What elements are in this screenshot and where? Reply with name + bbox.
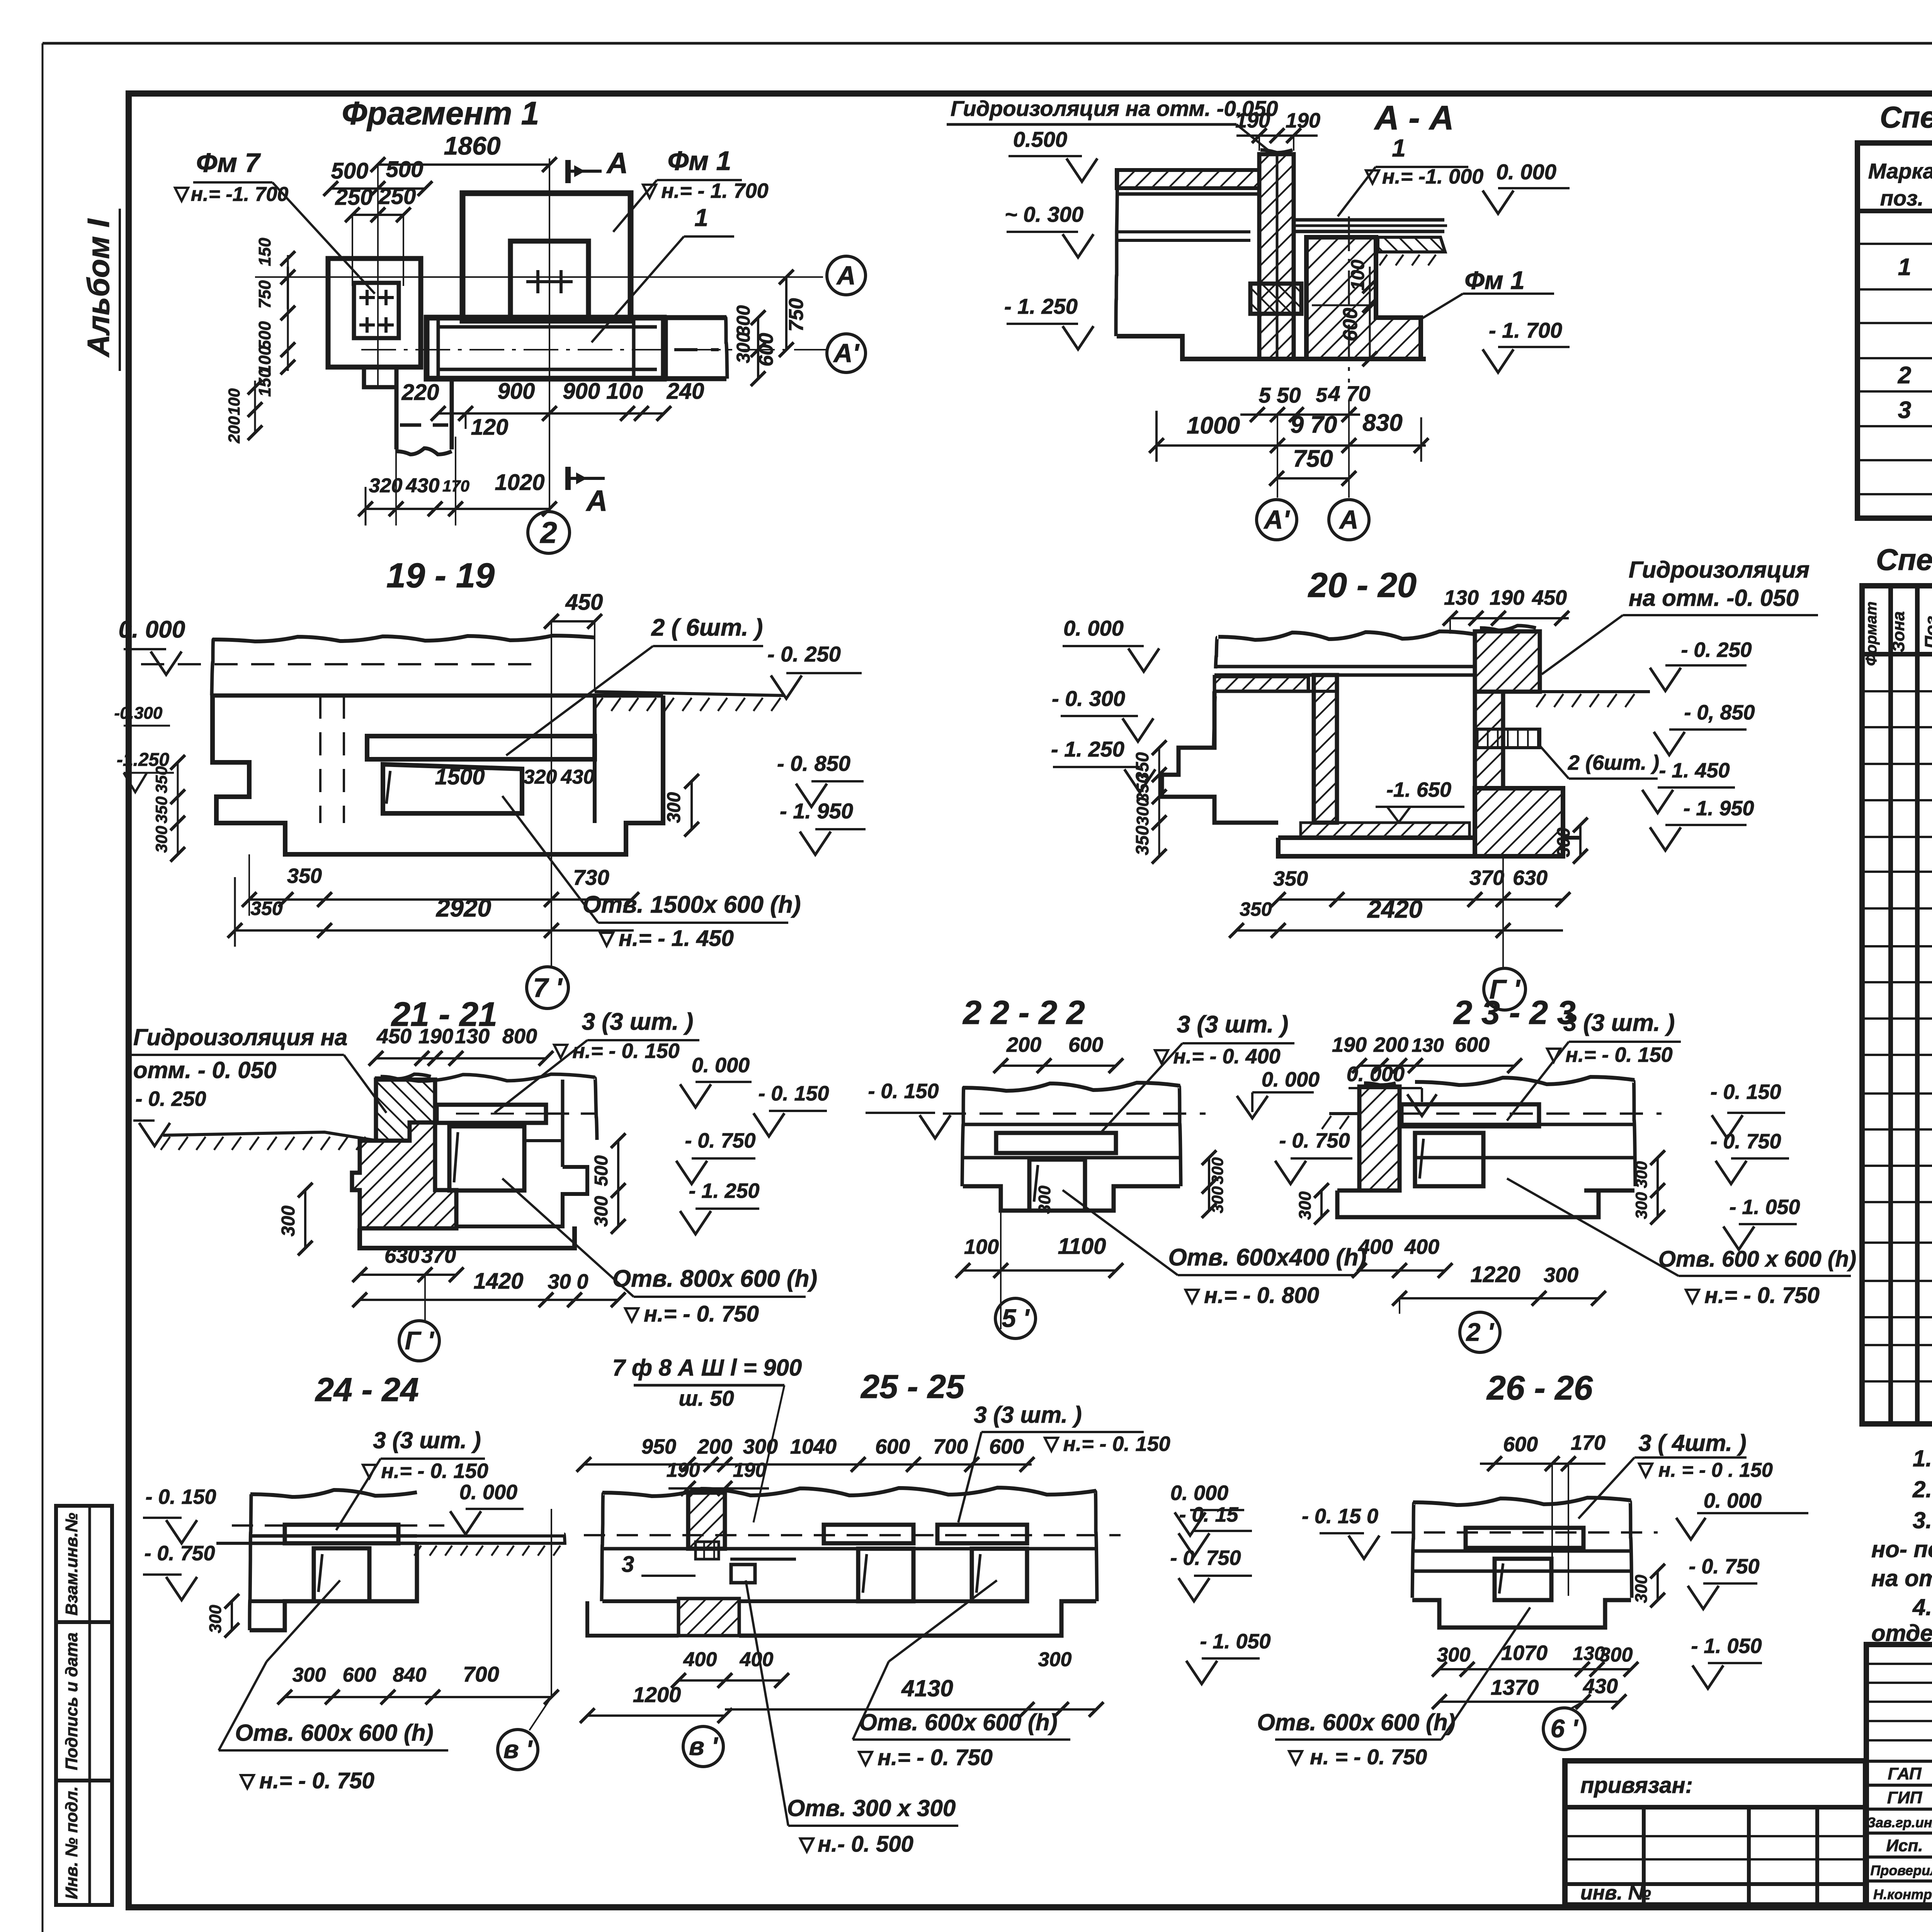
- 26-26 right rotated dim 300: [1656, 1571, 1659, 1600]
- svg-text:0. 000: 0. 000: [1704, 1489, 1762, 1512]
- svg-text:0. 000: 0. 000: [119, 616, 185, 643]
- svg-text:600: 600: [343, 1664, 376, 1686]
- svg-text:300: 300: [152, 826, 170, 853]
- svg-text:7 ': 7 ': [533, 973, 563, 1003]
- svg-text:1040: 1040: [790, 1435, 837, 1458]
- section mark A top: [565, 160, 571, 183]
- svg-text:320: 320: [369, 474, 403, 497]
- svg-text:- 0. 150: - 0. 150: [868, 1080, 939, 1103]
- svg-text:- 0. 250: - 0. 250: [767, 642, 841, 666]
- svg-text:220: 220: [401, 380, 439, 405]
- svg-text:- 0. 750: - 0. 750: [1689, 1555, 1759, 1578]
- 24-24 body: [250, 1490, 417, 1497]
- svg-text:Спецификация: Спецификация: [1876, 543, 1932, 577]
- svg-text:1: 1: [1392, 134, 1406, 162]
- svg-text:3 (3 шт. ): 3 (3 шт. ): [373, 1427, 481, 1453]
- svg-text:Гидроизоляция: Гидроизоляция: [1629, 557, 1810, 583]
- svg-text:170: 170: [1571, 1431, 1605, 1454]
- 21-21 concrete block: [352, 1122, 456, 1228]
- svg-text:350: 350: [152, 766, 170, 793]
- svg-text:4130: 4130: [901, 1675, 953, 1701]
- svg-text:600: 600: [989, 1435, 1024, 1458]
- svg-text:- 0. 750: - 0. 750: [1279, 1129, 1350, 1152]
- svg-text:190: 190: [733, 1459, 767, 1481]
- svg-text:ГИП: ГИП: [1887, 1788, 1923, 1807]
- svg-text:370: 370: [421, 1244, 456, 1267]
- 22-22 levels: [866, 1112, 935, 1114]
- svg-text:130: 130: [455, 1025, 490, 1048]
- svg-text:Инв. № подл.: Инв. № подл.: [62, 1786, 81, 1899]
- svg-text:190: 190: [1332, 1033, 1367, 1056]
- svg-text:500: 500: [591, 1155, 612, 1186]
- svg-text:300: 300: [1437, 1644, 1471, 1666]
- 23-23 left rotated dim 300: [1320, 1190, 1323, 1217]
- 20-20 right foundation step: [1475, 788, 1563, 856]
- section mark A bottom: [565, 467, 571, 490]
- svg-text:350: 350: [287, 864, 322, 888]
- 22-22 body: [963, 1083, 1180, 1091]
- svg-text:н.= - 0. 150: н.= - 0. 150: [1063, 1432, 1170, 1456]
- svg-text:2420: 2420: [1367, 895, 1422, 923]
- svg-text:- 1. 700: - 1. 700: [1489, 318, 1562, 342]
- svg-text:3 ( 4шт. ): 3 ( 4шт. ): [1638, 1430, 1746, 1456]
- svg-text:1860: 1860: [444, 131, 501, 160]
- 23-23 opening: [1415, 1133, 1483, 1186]
- svg-text:отм. - 0. 050: отм. - 0. 050: [133, 1057, 276, 1083]
- svg-text:ш. 50: ш. 50: [679, 1386, 734, 1410]
- svg-text:300: 300: [1035, 1185, 1054, 1214]
- svg-text:0. 000: 0. 000: [1262, 1068, 1320, 1091]
- svg-text:н. = - 0. 750: н. = - 0. 750: [1310, 1745, 1427, 1769]
- 24-24 left rotated dim 300: [231, 1601, 233, 1630]
- svg-text:300: 300: [1208, 1157, 1226, 1184]
- svg-text:0. 000: 0. 000: [459, 1481, 517, 1504]
- svg-text:2 2 - 2 2: 2 2 - 2 2: [962, 994, 1085, 1031]
- svg-text:2: 2: [539, 515, 557, 549]
- svg-text:н.= -1. 000: н.= -1. 000: [1382, 165, 1483, 188]
- 25-25 openings: [858, 1549, 913, 1601]
- 25-25 bottom outline: [602, 1599, 679, 1603]
- svg-text:- 0. 750: - 0. 750: [144, 1542, 215, 1565]
- svg-text:- 1. 250: - 1. 250: [689, 1179, 759, 1202]
- svg-text:9 70: 9 70: [1291, 412, 1337, 438]
- svg-text:400: 400: [740, 1648, 774, 1671]
- svg-text:900: 900: [498, 379, 535, 404]
- 19-19 opening (Отв. 1500x600): [367, 736, 595, 759]
- svg-text:100: 100: [225, 388, 243, 415]
- svg-text:~ 0. 300: ~ 0. 300: [1005, 202, 1083, 226]
- 20-20 levels left: [1063, 645, 1144, 647]
- 20-20 left steps: [1162, 691, 1278, 823]
- svg-text:350: 350: [152, 796, 170, 823]
- 20-20 right rotated dim 300: [1579, 825, 1582, 856]
- svg-text:- 0. 15: - 0. 15: [1179, 1503, 1238, 1526]
- svg-text:Формат: Формат: [1863, 602, 1880, 666]
- svg-text:350: 350: [250, 898, 283, 919]
- svg-text:30 0: 30 0: [548, 1270, 588, 1293]
- svg-text:730: 730: [573, 865, 609, 889]
- 23-23 body: [1415, 1077, 1634, 1085]
- svg-text:А: А: [836, 261, 855, 290]
- 24-24 opening: [314, 1548, 369, 1601]
- 26-26 levels: [1320, 1532, 1364, 1534]
- 20-20 wall top right hatched: [1475, 631, 1540, 692]
- pad Фм1 (big square): [463, 193, 631, 321]
- svg-text:450: 450: [376, 1025, 412, 1048]
- svg-text:130: 130: [1444, 586, 1479, 609]
- svg-text:Фм 1: Фм 1: [668, 146, 731, 176]
- svg-text:Подпись и дата: Подпись и дата: [62, 1633, 81, 1770]
- svg-text:950: 950: [641, 1435, 676, 1458]
- 25-25 right levels: [1190, 1509, 1244, 1511]
- svg-text:но- песчаного раствора с: но- песчаного раствора состава 1 : 2 тол…: [1871, 1536, 1932, 1562]
- svg-text:А: А: [606, 147, 628, 180]
- svg-text:200: 200: [225, 416, 243, 444]
- svg-text:24 - 24: 24 - 24: [315, 1371, 419, 1408]
- svg-text:-0.300: -0.300: [114, 704, 163, 723]
- svg-text:Отв. 1500х 600 (h): Отв. 1500х 600 (h): [583, 891, 801, 918]
- 24-24 bottom outline: [250, 1543, 417, 1630]
- svg-text:300: 300: [733, 332, 754, 363]
- 26-26 body: [1413, 1498, 1631, 1505]
- svg-text:- 0. 150: - 0. 150: [1710, 1080, 1781, 1104]
- svg-text:А': А': [833, 338, 860, 368]
- svg-text:- 1. 050: - 1. 050: [1729, 1196, 1800, 1219]
- 24-24 right arm: [417, 1534, 564, 1537]
- svg-text:700: 700: [933, 1435, 968, 1458]
- 23-23 axis circle 2: [1399, 1298, 1400, 1314]
- A-A base: [1117, 336, 1426, 359]
- title block: [1866, 1645, 1932, 1905]
- svg-text:1: 1: [694, 204, 708, 231]
- svg-text:1020: 1020: [495, 470, 544, 495]
- 26-26 bottom outline: [1412, 1600, 1631, 1628]
- A-A right floor: [1294, 218, 1444, 222]
- 25-25 body: [602, 1488, 1096, 1496]
- svg-text:600: 600: [1068, 1033, 1103, 1056]
- svg-text:5 50: 5 50: [1259, 383, 1301, 407]
- svg-text:- 0. 750: - 0. 750: [685, 1129, 755, 1152]
- svg-text:- 1. 050: - 1. 050: [1691, 1634, 1762, 1658]
- svg-text:Исп.: Исп.: [1886, 1836, 1923, 1855]
- svg-text:300: 300: [1632, 1161, 1650, 1188]
- svg-text:Фм 1: Фм 1: [1464, 266, 1524, 294]
- svg-text:Отв. 300 х 300: Отв. 300 х 300: [787, 1795, 956, 1821]
- A-A axis circles: [1277, 415, 1278, 498]
- svg-text:300: 300: [293, 1664, 326, 1686]
- svg-text:240: 240: [667, 379, 704, 404]
- svg-text:н.= -1. 700: н.= -1. 700: [191, 183, 289, 206]
- svg-text:Проверил: Проверил: [1870, 1862, 1932, 1878]
- svg-text:Отв. 600х 600 (h): Отв. 600х 600 (h): [859, 1709, 1057, 1735]
- svg-text:1000: 1000: [1187, 412, 1240, 439]
- svg-text:430: 430: [406, 474, 440, 497]
- 24-24 axis circle в: [498, 1730, 538, 1770]
- foundation beam (plan): [427, 318, 664, 379]
- 20-20 bolts 2(6шт): [1477, 729, 1540, 748]
- svg-text:инв. №: инв. №: [1580, 1882, 1651, 1904]
- svg-text:400: 400: [1404, 1235, 1439, 1259]
- 23-23 wall: [1359, 1087, 1400, 1190]
- svg-text:н.= - 0. 750: н.= - 0. 750: [878, 1745, 993, 1770]
- svg-text:2920: 2920: [436, 894, 491, 922]
- 22-22 beam: [996, 1133, 1116, 1153]
- svg-text:на отм. - 0. 050: на отм. - 0. 050: [1871, 1565, 1932, 1591]
- svg-text:1500: 1500: [435, 764, 485, 789]
- 21-21 wall hatched: [376, 1080, 435, 1141]
- beam right segment: [663, 318, 668, 379]
- fragment 1 axes: [255, 276, 823, 278]
- svg-text:200: 200: [1006, 1033, 1041, 1056]
- svg-text:120: 120: [471, 415, 509, 440]
- svg-text:0. 000: 0. 000: [1170, 1481, 1228, 1505]
- svg-text:300: 300: [278, 1206, 299, 1236]
- svg-text:350: 350: [1273, 867, 1308, 890]
- svg-text:- 1. 050: - 1. 050: [1200, 1630, 1270, 1653]
- svg-text:- 1. 950: - 1. 950: [1683, 797, 1754, 820]
- svg-text:- 0. 750: - 0. 750: [1710, 1130, 1781, 1153]
- 21-21 beam: [437, 1105, 546, 1123]
- svg-text:830: 830: [1362, 410, 1402, 436]
- svg-text:- 0, 850: - 0, 850: [1684, 701, 1755, 724]
- 19-19 left rotated dims: [177, 762, 179, 854]
- svg-text:600: 600: [1503, 1433, 1538, 1456]
- svg-text:3: 3: [622, 1552, 634, 1577]
- svg-text:3. Горизонтальная гидроизоля: 3. Горизонтальная гидроизоляция выполняе…: [1913, 1507, 1932, 1533]
- svg-text:5 ': 5 ': [1002, 1304, 1030, 1332]
- svg-text:190: 190: [667, 1459, 700, 1481]
- svg-text:2 ( 6шт. ): 2 ( 6шт. ): [651, 614, 763, 641]
- svg-text:450: 450: [1532, 586, 1567, 609]
- svg-text:поз.: поз.: [1880, 186, 1924, 210]
- svg-text:Гидроизоляция на: Гидроизоляция на: [133, 1024, 347, 1050]
- svg-text:0.500: 0.500: [1013, 127, 1067, 151]
- svg-text:н.= - 1. 700: н.= - 1. 700: [661, 179, 768, 202]
- svg-text:900 10: 900 10: [563, 379, 631, 404]
- svg-text:0. 000: 0. 000: [1063, 616, 1124, 640]
- 25-25 beams: [824, 1525, 913, 1543]
- svg-text:300: 300: [206, 1605, 225, 1633]
- svg-text:500: 500: [386, 157, 423, 182]
- svg-text:400: 400: [1358, 1235, 1393, 1259]
- paper trim border: [43, 42, 1932, 45]
- svg-text:н.= - 0. 800: н.= - 0. 800: [1204, 1283, 1319, 1308]
- svg-text:- 0. 250: - 0. 250: [135, 1087, 206, 1111]
- 23-23 bottom outline: [1337, 1190, 1634, 1217]
- 20-20 top lines: [1218, 631, 1476, 640]
- 19-19 axis circle 7: [551, 638, 552, 968]
- 20-20 axis circle Г: [1502, 856, 1504, 968]
- 21-21 axis circle Г: [424, 1275, 426, 1321]
- svg-text:А: А: [586, 485, 608, 517]
- 24-24 levels: [143, 1517, 182, 1519]
- A-A levels left: [1009, 155, 1082, 157]
- 26-26 beam: [1466, 1528, 1583, 1548]
- svg-text:Зав.гр.инж: Зав.гр.инж: [1867, 1815, 1932, 1830]
- svg-text:- 0. 300: - 0. 300: [1052, 686, 1125, 711]
- svg-text:1200: 1200: [633, 1682, 681, 1707]
- svg-text:Отв. 600 х 600 (h): Отв. 600 х 600 (h): [1658, 1247, 1856, 1272]
- svg-text:3: 3: [1898, 397, 1911, 423]
- svg-text:300: 300: [1544, 1264, 1578, 1287]
- svg-text:Н.контр.: Н.контр.: [1873, 1886, 1932, 1902]
- 19-19 ground/floor lines: [213, 636, 595, 641]
- 25-25 axis circle в: [683, 1726, 723, 1767]
- svg-text:300: 300: [1133, 797, 1152, 826]
- A-A wall console: [1250, 284, 1301, 314]
- left margin stamp boxes: [56, 1506, 112, 1622]
- svg-text:3 (3 шт. ): 3 (3 шт. ): [974, 1402, 1082, 1428]
- svg-text:- 0. 750: - 0. 750: [1170, 1546, 1241, 1570]
- svg-text:250: 250: [378, 184, 416, 209]
- 21-21 right rotated dims 500 300: [617, 1141, 619, 1226]
- svg-text:500: 500: [331, 158, 369, 184]
- 20-20 bottom slab: [1278, 838, 1475, 856]
- svg-text:800: 800: [502, 1025, 537, 1048]
- axis circles A / A-prime: [827, 256, 866, 295]
- svg-text:н.= - 0. 750: н.= - 0. 750: [259, 1768, 374, 1793]
- svg-text:- 1. 250: - 1. 250: [1004, 294, 1078, 318]
- svg-text:3 (3 шт. ): 3 (3 шт. ): [582, 1009, 694, 1035]
- svg-text:350: 350: [1132, 825, 1152, 855]
- svg-text:2 (6шт. ): 2 (6шт. ): [1568, 751, 1659, 774]
- A-A wall: [1259, 154, 1294, 359]
- svg-text:300: 300: [1632, 1575, 1651, 1603]
- svg-text:в ': в ': [503, 1735, 533, 1764]
- trench below pad: [395, 367, 399, 449]
- 25-25 wall hatched: [688, 1493, 725, 1549]
- svg-text:- 0. 150: - 0. 150: [758, 1082, 829, 1105]
- 19-19 right dim 300: [690, 781, 693, 829]
- svg-text:1220: 1220: [1470, 1262, 1520, 1287]
- 19-19 levels: [124, 648, 166, 650]
- svg-text:Г ': Г ': [405, 1326, 435, 1355]
- svg-text:430: 430: [561, 766, 595, 788]
- svg-text:400: 400: [683, 1648, 717, 1671]
- svg-text:7 ф 8 А Ш l = 900: 7 ф 8 А Ш l = 900: [612, 1355, 802, 1381]
- 20-20 levels right: [1665, 664, 1747, 667]
- svg-text:2. Данный лист см. совм: 2. Данный лист см. совместно с листом АС…: [1912, 1476, 1932, 1502]
- svg-text:300: 300: [591, 1196, 612, 1227]
- svg-text:- 1. 950: - 1. 950: [780, 799, 853, 823]
- svg-text:190: 190: [418, 1025, 453, 1048]
- svg-text:Марка,: Марка,: [1868, 159, 1932, 183]
- svg-text:25 - 25: 25 - 25: [860, 1368, 965, 1405]
- svg-text:н.= - 0. 150: н.= - 0. 150: [1565, 1043, 1672, 1066]
- svg-text:ГАП: ГАП: [1888, 1764, 1922, 1783]
- svg-text:300: 300: [1553, 827, 1573, 857]
- axis circle 2: [528, 512, 570, 553]
- A-A levels right: [1498, 187, 1570, 189]
- svg-text:1100: 1100: [1058, 1234, 1106, 1259]
- svg-text:150: 150: [255, 238, 274, 266]
- svg-text:Взам.инв.№: Взам.инв.№: [62, 1513, 81, 1616]
- 21-21 right wall: [561, 1080, 565, 1167]
- svg-text:- 1. 250: - 1. 250: [1051, 737, 1124, 761]
- svg-text:100: 100: [964, 1235, 999, 1259]
- svg-text:н.= - 0. 400: н.= - 0. 400: [1173, 1045, 1280, 1068]
- 19-19 foundation outline: [213, 696, 663, 854]
- svg-text:н.= - 1. 450: н.= - 1. 450: [619, 926, 734, 951]
- svg-text:300: 300: [1208, 1186, 1226, 1213]
- 20-20 ground right: [1540, 690, 1650, 693]
- svg-text:840: 840: [393, 1664, 427, 1686]
- 21-21 ground left: [163, 1132, 377, 1141]
- svg-text:н.= - 0. 750: н.= - 0. 750: [644, 1301, 759, 1327]
- A-A foundation block Фм1: [1306, 237, 1421, 359]
- 26-26 opening: [1495, 1559, 1551, 1600]
- svg-text:А': А': [1263, 505, 1290, 534]
- svg-text:Зона: Зона: [1889, 611, 1908, 652]
- svg-text:0. 000: 0. 000: [1496, 160, 1556, 184]
- svg-text:500: 500: [255, 321, 274, 350]
- svg-text:- 0. 150: - 0. 150: [145, 1485, 216, 1509]
- svg-text:0. 000: 0. 000: [692, 1054, 750, 1077]
- svg-text:Отв. 600х 600 (h): Отв. 600х 600 (h): [235, 1720, 433, 1746]
- svg-text:Фм 7: Фм 7: [196, 148, 261, 178]
- svg-text:- 0. 850: - 0. 850: [777, 751, 850, 776]
- svg-text:6 ': 6 ': [1551, 1714, 1579, 1743]
- svg-text:н. = - 0 . 150: н. = - 0 . 150: [1658, 1459, 1773, 1481]
- 21-21 levels: [696, 1081, 752, 1083]
- svg-text:2 ': 2 ': [1466, 1318, 1495, 1346]
- svg-text:Отв. 600х400 (h): Отв. 600х400 (h): [1168, 1244, 1366, 1271]
- svg-text:350: 350: [1240, 898, 1272, 920]
- svg-text:Фрагмент 1: Фрагмент 1: [342, 95, 539, 131]
- 20-20 floor slab hatched: [1214, 677, 1308, 691]
- svg-text:н.= - 0. 150: н.= - 0. 150: [381, 1459, 488, 1483]
- svg-text:450: 450: [565, 590, 603, 615]
- svg-text:250: 250: [335, 185, 373, 210]
- pad Фм7 (left square): [328, 259, 421, 367]
- svg-text:Альбом I: Альбом I: [81, 218, 116, 358]
- svg-text:300: 300: [733, 305, 754, 336]
- svg-text:700: 700: [463, 1662, 499, 1686]
- svg-text:300: 300: [1632, 1192, 1650, 1219]
- svg-text:- 1. 450: - 1. 450: [1659, 759, 1730, 782]
- svg-text:- 0. 250: - 0. 250: [1681, 638, 1752, 662]
- svg-text:2: 2: [1898, 362, 1911, 389]
- svg-text:1. Общие данные см. ли: 1. Общие данные см. листы 4 ; 5.: [1913, 1446, 1932, 1471]
- svg-text:600: 600: [1455, 1033, 1490, 1056]
- svg-text:600: 600: [875, 1435, 910, 1458]
- 21-21 left rotated dim 300: [304, 1190, 306, 1248]
- svg-text:1: 1: [1898, 254, 1911, 281]
- svg-text:5: 5: [1316, 384, 1328, 406]
- svg-text:26 - 26: 26 - 26: [1486, 1369, 1593, 1407]
- 20-20 left rotated dims: [1158, 748, 1160, 856]
- svg-text:190: 190: [1286, 109, 1320, 132]
- svg-text:300: 300: [1296, 1191, 1315, 1220]
- svg-text:750: 750: [1293, 446, 1333, 472]
- svg-text:3 (3 шт. ): 3 (3 шт. ): [1563, 1010, 1675, 1036]
- svg-text:630: 630: [384, 1244, 419, 1267]
- svg-text:300: 300: [664, 792, 684, 823]
- 23-23 right rotated dims: [1656, 1158, 1659, 1217]
- svg-text:- 0. 15 0: - 0. 15 0: [1302, 1505, 1378, 1528]
- 23-23 beam: [1401, 1104, 1539, 1126]
- 22-22 axis circle 5: [995, 1298, 1036, 1338]
- 21-21 bottom slab: [360, 1226, 575, 1248]
- svg-text:430: 430: [1583, 1675, 1618, 1698]
- svg-text:А: А: [1338, 505, 1358, 534]
- svg-text:750: 750: [785, 298, 808, 332]
- svg-text:1070: 1070: [1501, 1641, 1548, 1665]
- 22-22 bottom outline: [963, 1186, 1180, 1211]
- svg-text:А - А: А - А: [1374, 99, 1454, 137]
- svg-text:н.= - 0. 150: н.= - 0. 150: [572, 1039, 679, 1063]
- svg-text:Отв. 600х 600 (h): Отв. 600х 600 (h): [1257, 1709, 1455, 1735]
